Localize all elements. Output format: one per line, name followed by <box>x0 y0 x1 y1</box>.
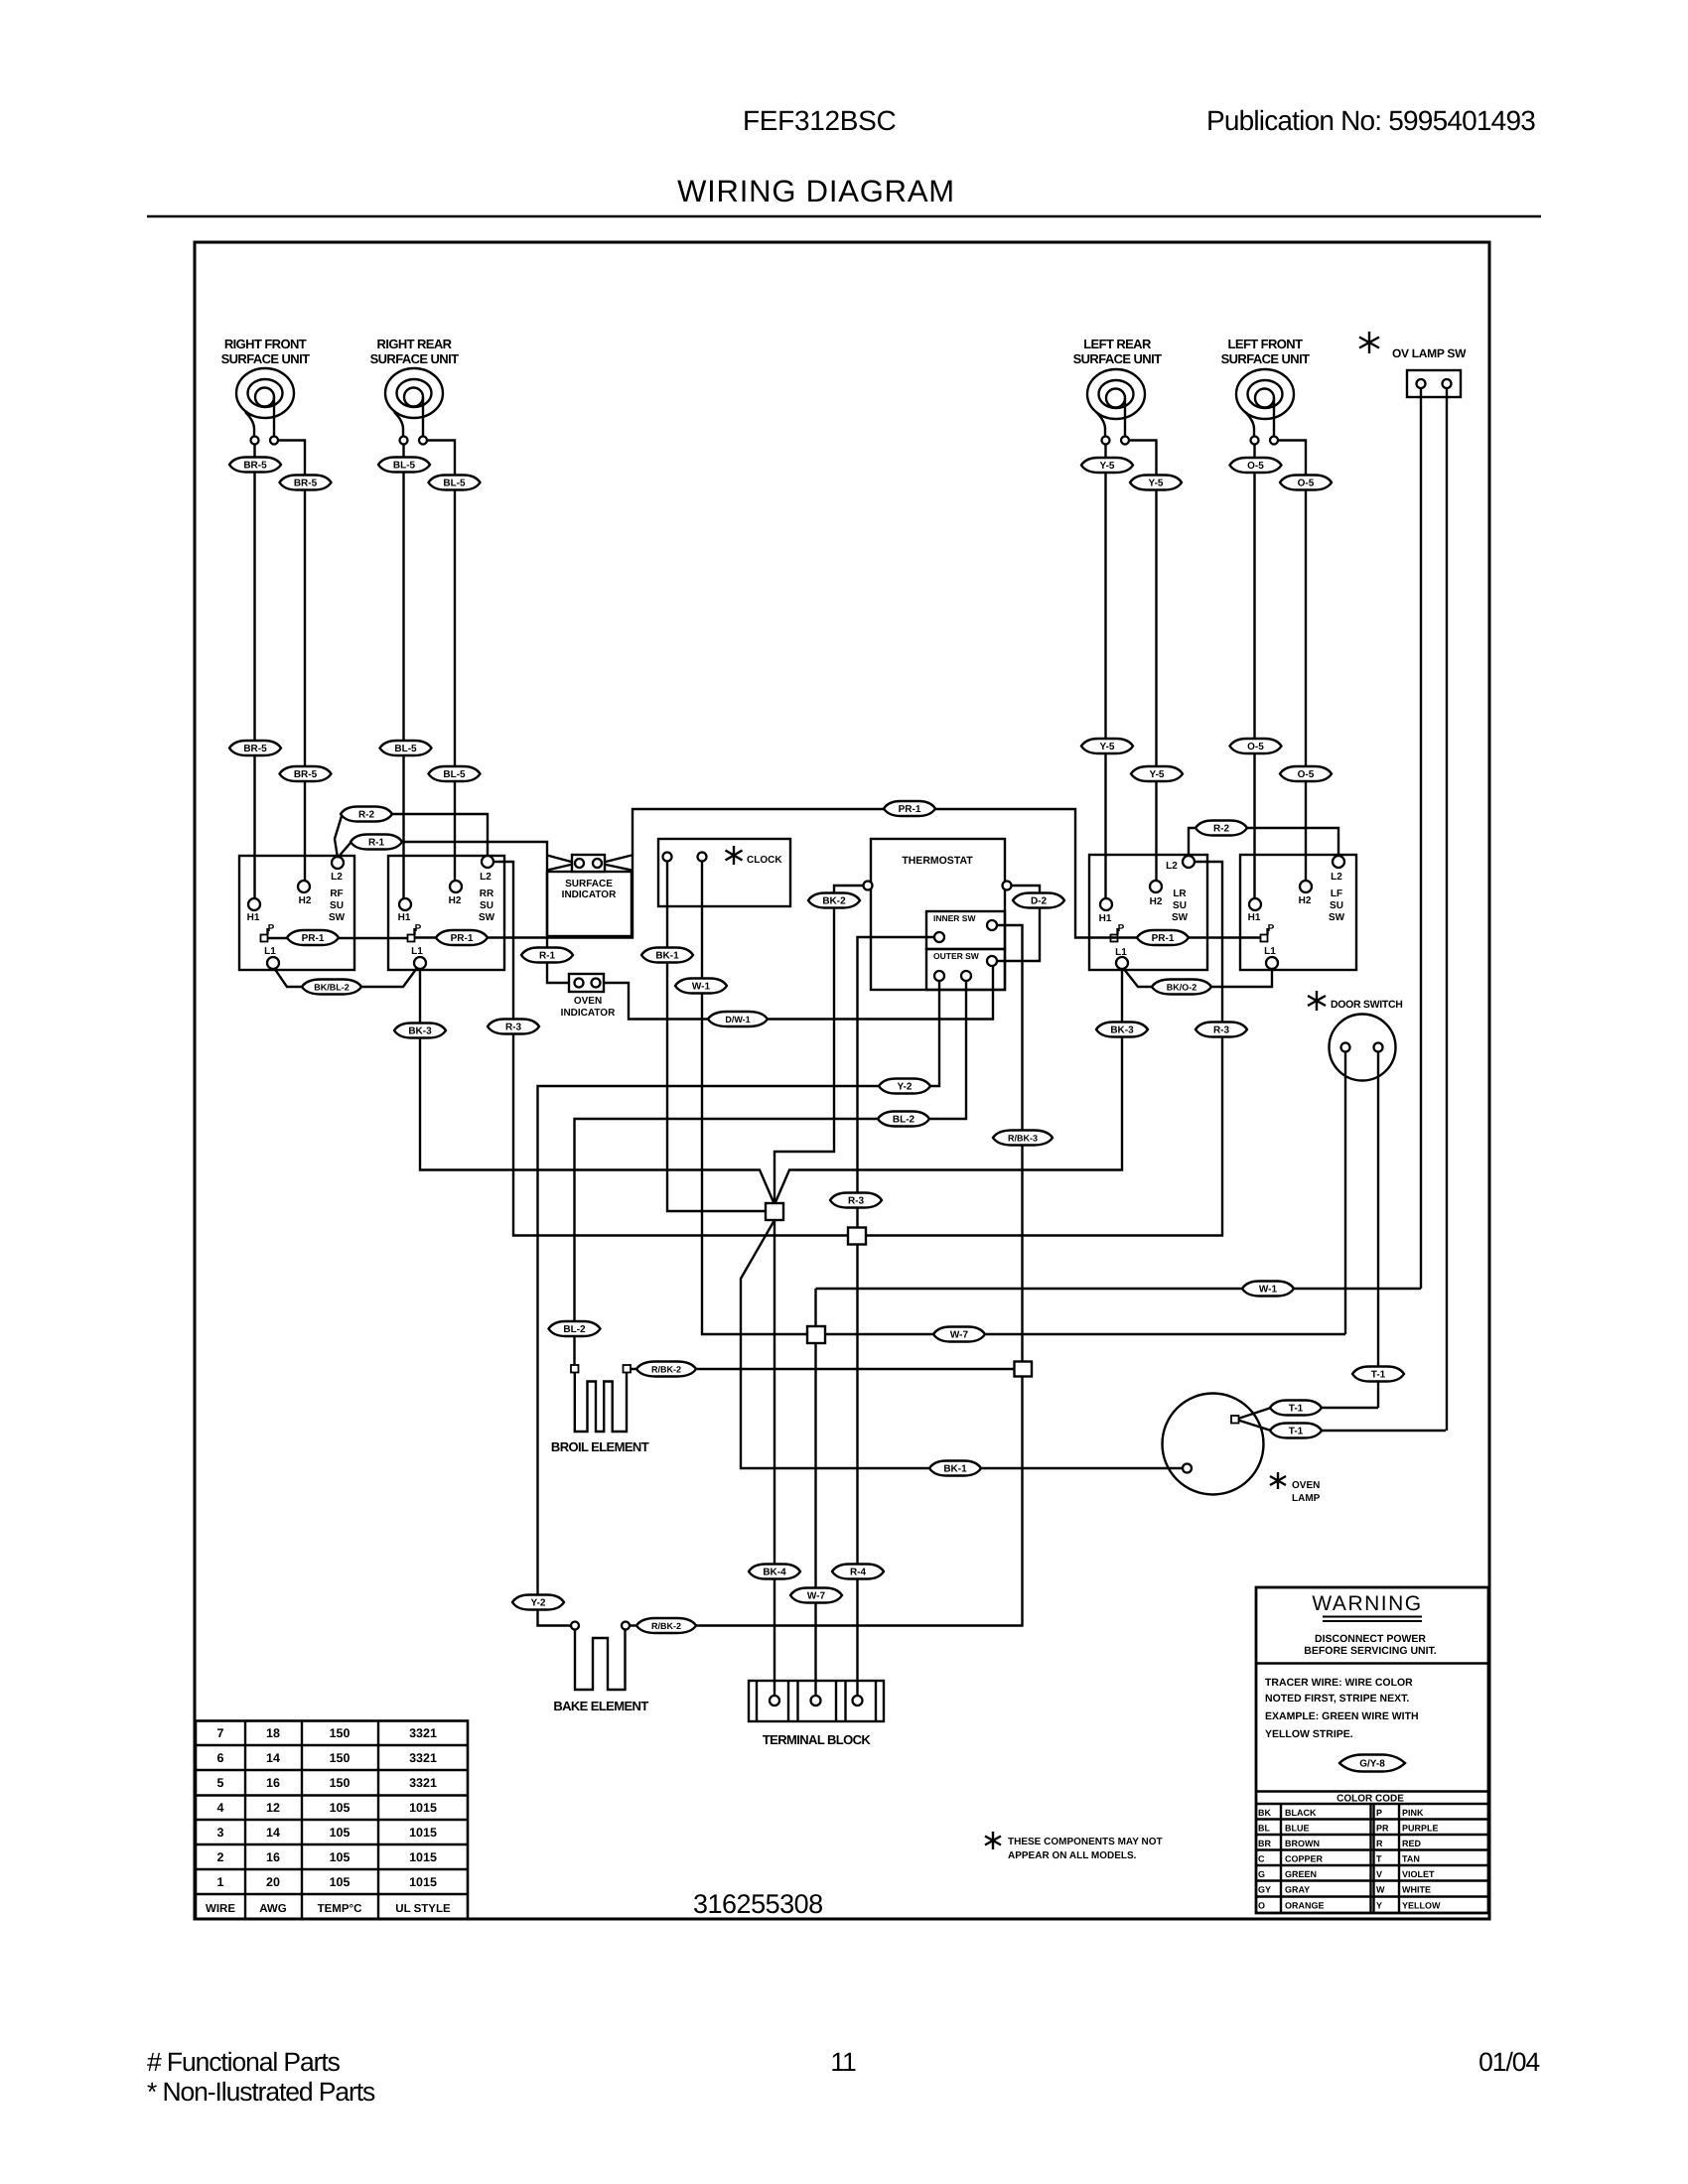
wire PR-1 run RF-RR <box>268 937 408 939</box>
right front surface unit coil <box>221 337 311 445</box>
svg-text:OV LAMP SW: OV LAMP SW <box>1392 346 1467 360</box>
junction square 3 <box>807 1326 825 1343</box>
svg-text:BK/O-2: BK/O-2 <box>1167 983 1197 993</box>
svg-text:BR-5: BR-5 <box>294 478 318 489</box>
svg-text:R-4: R-4 <box>850 1568 867 1578</box>
svg-text:O-5: O-5 <box>1247 742 1264 752</box>
svg-text:O-5: O-5 <box>1298 769 1315 780</box>
svg-text:BL-2: BL-2 <box>893 1115 915 1126</box>
svg-text:W-7: W-7 <box>950 1330 969 1341</box>
svg-text:BR-5: BR-5 <box>294 769 318 780</box>
wire BK-1 clock to junction <box>667 862 765 1212</box>
svg-text:SU: SU <box>1173 900 1187 911</box>
wire W-1 clock drop and W-7 run <box>702 862 1345 1335</box>
svg-text:YELLOW: YELLOW <box>1402 1901 1441 1911</box>
wire label oval BR-5 <box>280 766 332 781</box>
wire label oval PR-1 <box>287 930 339 945</box>
wire D-2 thermostat right to outer sw <box>997 886 1040 961</box>
svg-text:R/BK-2: R/BK-2 <box>651 1365 681 1375</box>
wire label oval BK-3 <box>1096 1023 1148 1037</box>
svg-text:105: 105 <box>330 1826 351 1840</box>
wire BK/O-2 link L1 LR to L1 LF <box>1123 968 1272 987</box>
svg-text:R-2: R-2 <box>1213 824 1230 835</box>
svg-text:BK-4: BK-4 <box>763 1568 786 1578</box>
svg-text:H1: H1 <box>398 912 411 923</box>
wire label oval D-2 <box>1013 893 1064 908</box>
svg-text:BK-3: BK-3 <box>1110 1025 1134 1036</box>
svg-text:H1: H1 <box>1099 913 1112 924</box>
wire BK-1 junction to oven lamp <box>741 1220 1183 1468</box>
svg-text:TEMP°C: TEMP°C <box>318 1903 362 1915</box>
svg-text:# Functional Parts: # Functional Parts <box>147 2047 341 2077</box>
svg-text:SURFACE UNIT: SURFACE UNIT <box>1221 351 1311 366</box>
wire label oval R-2 <box>341 807 392 822</box>
svg-text:H2: H2 <box>1299 895 1312 906</box>
svg-text:W-7: W-7 <box>807 1591 826 1602</box>
wire label oval O-5 <box>1280 766 1332 781</box>
svg-text:SURFACE UNIT: SURFACE UNIT <box>370 351 460 366</box>
wire label oval BR-5 <box>229 458 281 473</box>
svg-text:BROIL ELEMENT: BROIL ELEMENT <box>551 1439 649 1454</box>
svg-text:LEFT FRONT: LEFT FRONT <box>1228 337 1304 351</box>
wire label oval T-1 <box>1270 1401 1322 1416</box>
svg-text:D-2: D-2 <box>1031 896 1048 907</box>
svg-text:150: 150 <box>330 1726 351 1740</box>
svg-text:SW: SW <box>1172 912 1189 923</box>
svg-text:SW: SW <box>1329 912 1345 923</box>
svg-text:Y-5: Y-5 <box>1099 742 1114 752</box>
wire label oval BL-5 <box>429 476 481 490</box>
svg-text:Y-2: Y-2 <box>530 1598 545 1609</box>
wire label oval BR-5 <box>280 476 332 490</box>
wire R-3 run L2 RR to L2 LR <box>493 862 1222 1236</box>
svg-text:105: 105 <box>330 1850 351 1864</box>
wire label oval R-4 <box>832 1565 884 1579</box>
svg-text:RIGHT REAR: RIGHT REAR <box>377 337 453 351</box>
svg-text:L1: L1 <box>411 946 423 957</box>
svg-text:BLACK: BLACK <box>1285 1808 1317 1818</box>
svg-text:BR-5: BR-5 <box>243 744 267 754</box>
wire label oval BK-2 <box>808 893 860 908</box>
clock <box>658 839 790 906</box>
wire label oval R-1 <box>351 835 402 850</box>
wire label oval PR-1 <box>1137 930 1189 945</box>
svg-text:DOOR SWITCH: DOOR SWITCH <box>1331 999 1403 1011</box>
svg-text:PR-1: PR-1 <box>302 933 325 944</box>
svg-text:RED: RED <box>1402 1839 1422 1848</box>
thermostat <box>864 839 1012 990</box>
svg-text:TRACER WIRE: WIRE COLOR: TRACER WIRE: WIRE COLOR <box>1265 1677 1413 1689</box>
svg-text:BL-5: BL-5 <box>393 461 416 472</box>
svg-text:C: C <box>1258 1854 1265 1864</box>
junction square 4 <box>1015 1362 1033 1377</box>
wire RR H1 drop <box>402 445 404 899</box>
wire label oval BL-2 <box>878 1112 929 1127</box>
wire Y-2 outer sw to bake element <box>538 981 940 1626</box>
svg-text:O: O <box>1258 1901 1265 1911</box>
svg-text:PR-1: PR-1 <box>451 933 474 944</box>
wire R-2 run to RR L2 <box>392 814 488 856</box>
svg-text:3321: 3321 <box>409 1751 437 1765</box>
wire label oval O-5 <box>1230 739 1282 753</box>
svg-text:OUTER SW: OUTER SW <box>933 951 980 961</box>
svg-text:G: G <box>1258 1869 1265 1879</box>
svg-text:ORANGE: ORANGE <box>1285 1901 1325 1911</box>
svg-text:Publication No: 5995401493: Publication No: 5995401493 <box>1206 105 1535 136</box>
svg-text:R-3: R-3 <box>1213 1025 1230 1036</box>
svg-text:LR: LR <box>1173 888 1187 899</box>
svg-text:SURFACE UNIT: SURFACE UNIT <box>1073 351 1163 366</box>
wire label oval D/W-1 <box>708 1012 768 1026</box>
right rear surface unit coil <box>370 337 460 445</box>
wire label oval W-7 <box>933 1327 985 1342</box>
svg-text:L1: L1 <box>264 946 276 957</box>
LF surface unit switch box <box>1240 855 1356 970</box>
svg-text:YELLOW STRIPE.: YELLOW STRIPE. <box>1265 1728 1353 1740</box>
svg-text:T-1: T-1 <box>1289 1427 1304 1437</box>
svg-text:BL-5: BL-5 <box>443 478 466 489</box>
svg-text:14: 14 <box>266 1751 280 1765</box>
RF surface unit switch box <box>239 856 354 970</box>
svg-text:INDICATOR: INDICATOR <box>561 1008 616 1019</box>
svg-text:BL-2: BL-2 <box>563 1324 586 1335</box>
wire label oval R/BK-3 <box>993 1131 1053 1146</box>
wire BK-2 thermostat left to junction <box>774 886 864 1203</box>
svg-text:RR: RR <box>480 888 494 899</box>
svg-text:14: 14 <box>266 1826 280 1840</box>
wire label oval W-1 <box>675 979 727 994</box>
wire label oval Y-5 <box>1131 766 1183 781</box>
svg-text:H2: H2 <box>449 895 462 906</box>
svg-text:T: T <box>1376 1854 1382 1864</box>
svg-text:12: 12 <box>266 1801 280 1815</box>
svg-text:1: 1 <box>217 1875 224 1889</box>
svg-text:1015: 1015 <box>409 1826 437 1840</box>
svg-text:LEFT REAR: LEFT REAR <box>1083 337 1152 351</box>
wire LF H1 drop <box>1253 445 1255 899</box>
wire label oval R/BK-2 <box>636 1362 696 1377</box>
oven lamp switch OV LAMP SW <box>1359 332 1467 397</box>
svg-text:SW: SW <box>329 912 346 923</box>
svg-text:* Non-Ilustrated Parts: * Non-Ilustrated Parts <box>147 2077 375 2107</box>
wire LF H2 jog drop <box>1278 441 1306 882</box>
wire R-1 run to surface indicator <box>402 842 569 983</box>
svg-text:BL-5: BL-5 <box>394 744 417 754</box>
diagram outer border <box>195 242 1489 1919</box>
svg-text:LF: LF <box>1331 888 1342 899</box>
wire R/BK-2 broil to junction <box>630 1368 1014 1370</box>
wire label oval R-3 <box>830 1193 882 1208</box>
svg-text:Y: Y <box>1376 1901 1382 1911</box>
svg-text:L2: L2 <box>331 872 343 883</box>
svg-text:SURFACE UNIT: SURFACE UNIT <box>221 351 311 366</box>
svg-text:R: R <box>1376 1839 1383 1848</box>
junction square 2 <box>848 1228 866 1245</box>
wire label oval T-1 <box>1352 1367 1404 1382</box>
wire label oval O-5 <box>1280 476 1332 490</box>
wire gauge table <box>196 1721 468 1920</box>
svg-text:R/BK-3: R/BK-3 <box>1008 1134 1038 1144</box>
svg-text:WIRE: WIRE <box>206 1903 235 1915</box>
svg-text:Y-5: Y-5 <box>1099 461 1114 472</box>
svg-text:OVEN: OVEN <box>574 996 602 1007</box>
svg-text:3: 3 <box>217 1826 224 1840</box>
svg-text:R-3: R-3 <box>505 1023 522 1033</box>
svg-text:L2: L2 <box>1331 872 1342 883</box>
wire R-2 right run LR-LF <box>1189 828 1338 856</box>
wire label oval R-3 <box>488 1020 539 1034</box>
svg-text:PURPLE: PURPLE <box>1402 1824 1439 1834</box>
wire label oval Y-5 <box>1081 739 1133 753</box>
svg-text:DISCONNECT POWER: DISCONNECT POWER <box>1315 1633 1426 1645</box>
svg-text:316255308: 316255308 <box>693 1889 823 1919</box>
wire BK-4 junction to terminal block <box>774 1220 775 1696</box>
svg-text:1015: 1015 <box>409 1801 437 1815</box>
svg-text:EXAMPLE: GREEN WIRE WITH: EXAMPLE: GREEN WIRE WITH <box>1265 1710 1419 1722</box>
svg-text:GY: GY <box>1258 1885 1271 1895</box>
svg-text:PR-1: PR-1 <box>899 804 921 815</box>
svg-text:PR: PR <box>1376 1824 1389 1834</box>
svg-text:SU: SU <box>1330 900 1343 911</box>
svg-text:T-1: T-1 <box>1289 1404 1304 1415</box>
svg-text:16: 16 <box>266 1776 280 1790</box>
wire label oval Y-5 <box>1081 458 1133 473</box>
svg-text:RF: RF <box>330 888 343 899</box>
svg-text:18: 18 <box>266 1726 280 1740</box>
svg-text:RIGHT FRONT: RIGHT FRONT <box>224 337 307 351</box>
svg-text:APPEAR ON ALL MODELS.: APPEAR ON ALL MODELS. <box>1008 1850 1137 1861</box>
broil element <box>551 1365 649 1454</box>
svg-text:PR-1: PR-1 <box>1152 933 1175 944</box>
svg-text:BROWN: BROWN <box>1285 1839 1320 1848</box>
svg-text:D/W-1: D/W-1 <box>725 1015 750 1024</box>
wire BK-3 left drop and run <box>420 969 1122 1202</box>
svg-text:O-5: O-5 <box>1298 478 1315 489</box>
bake element <box>553 1622 648 1714</box>
tracer wire example oval G/Y-8 <box>1339 1755 1405 1772</box>
svg-text:BK-2: BK-2 <box>822 896 846 907</box>
wire label oval BK/BL-2 <box>302 980 361 995</box>
svg-text:R-2: R-2 <box>358 810 375 821</box>
svg-text:P: P <box>268 923 275 934</box>
svg-text:3321: 3321 <box>409 1726 437 1740</box>
wire D/W-1 oven indicator to outer sw <box>604 966 993 1020</box>
wire BL-2 outer sw to broil element <box>575 981 967 1365</box>
svg-text:Y-5: Y-5 <box>1148 478 1163 489</box>
wire W-7 drop to terminal block <box>814 1289 816 1696</box>
wire label oval PR-1 <box>884 801 935 816</box>
wire label oval R-2 <box>1196 821 1247 836</box>
svg-text:H2: H2 <box>1150 896 1163 907</box>
wire T-1 oven lamp to ov lamp sw <box>1238 1421 1446 1432</box>
svg-text:3321: 3321 <box>409 1776 437 1790</box>
svg-text:H1: H1 <box>1248 912 1261 923</box>
svg-text:UL STYLE: UL STYLE <box>395 1903 451 1915</box>
wire door switch right drop <box>1377 1052 1379 1409</box>
svg-text:105: 105 <box>330 1801 351 1815</box>
svg-text:R-3: R-3 <box>848 1196 865 1207</box>
wire label oval R-1 <box>521 948 573 963</box>
thermostat outer switch <box>926 949 1005 990</box>
thermostat inner switch <box>926 911 1005 949</box>
svg-text:SW: SW <box>479 912 495 923</box>
wire outer sw left to terminal block <box>858 937 935 1696</box>
svg-text:SU: SU <box>480 900 493 911</box>
junction square 1 <box>766 1203 783 1220</box>
wire label oval T-1 <box>1270 1424 1322 1438</box>
wire W-1 cross run to ov lamp sw <box>816 1288 1422 1290</box>
svg-text:GREEN: GREEN <box>1285 1869 1317 1879</box>
svg-text:5: 5 <box>217 1776 224 1790</box>
svg-text:2: 2 <box>217 1850 224 1864</box>
svg-text:THESE COMPONENTS MAY NOT: THESE COMPONENTS MAY NOT <box>1008 1837 1163 1847</box>
svg-text:R-1: R-1 <box>368 838 385 849</box>
svg-text:V: V <box>1376 1869 1382 1879</box>
left rear surface unit coil <box>1073 337 1163 445</box>
svg-text:TAN: TAN <box>1402 1854 1420 1864</box>
wire R-1 left link <box>338 843 351 858</box>
svg-text:R-1: R-1 <box>539 951 556 962</box>
svg-text:AWG: AWG <box>259 1903 287 1915</box>
wire R/BK-3 inner sw to broil junction <box>630 925 1023 1626</box>
wire label oval W-7 <box>790 1588 842 1603</box>
wire label oval Y-5 <box>1130 476 1182 490</box>
svg-text:BLUE: BLUE <box>1285 1824 1310 1834</box>
svg-text:105: 105 <box>330 1875 351 1889</box>
svg-text:L2: L2 <box>480 872 492 883</box>
svg-text:Y-2: Y-2 <box>897 1082 912 1093</box>
svg-text:BK/BL-2: BK/BL-2 <box>314 983 350 993</box>
svg-text:20: 20 <box>266 1875 280 1889</box>
door switch <box>1308 991 1403 1081</box>
wire label oval BK-4 <box>749 1565 800 1579</box>
note: these components may not appear <box>985 1832 1163 1861</box>
svg-text:4: 4 <box>217 1801 224 1815</box>
svg-text:H1: H1 <box>247 912 260 923</box>
wire label oval BK-3 <box>394 1024 446 1038</box>
wire label oval BR-5 <box>229 741 281 755</box>
svg-text:P: P <box>1118 923 1125 934</box>
oven indicator <box>561 974 616 1019</box>
svg-text:FEF312BSC: FEF312BSC <box>743 105 897 136</box>
wire label oval BL-5 <box>378 458 430 473</box>
svg-text:16: 16 <box>266 1850 280 1864</box>
svg-text:BK-3: BK-3 <box>408 1026 432 1037</box>
wire RR H2 jog drop <box>427 441 455 882</box>
svg-text:BAKE ELEMENT: BAKE ELEMENT <box>553 1699 648 1713</box>
svg-text:6: 6 <box>217 1751 224 1765</box>
wire label oval BK-1 <box>641 948 693 963</box>
left front surface unit coil <box>1221 337 1311 445</box>
svg-text:P: P <box>1376 1808 1382 1818</box>
wire label oval O-5 <box>1230 458 1282 473</box>
wire BK/BL-2 link L1 RF to L1 RR <box>274 968 417 987</box>
svg-text:T-1: T-1 <box>1371 1370 1386 1381</box>
svg-text:W: W <box>1376 1885 1385 1895</box>
svg-text:TERMINAL BLOCK: TERMINAL BLOCK <box>763 1732 872 1747</box>
wire LR H1 drop <box>1104 445 1106 899</box>
RR surface unit switch box <box>388 856 504 970</box>
wire door switch left drop <box>1344 1052 1346 1335</box>
svg-text:BK-1: BK-1 <box>655 951 679 962</box>
svg-text:OVEN: OVEN <box>1292 1480 1320 1491</box>
svg-text:BK-1: BK-1 <box>943 1464 967 1475</box>
svg-text:WHITE: WHITE <box>1402 1885 1431 1895</box>
svg-text:SU: SU <box>330 900 344 911</box>
svg-text:BK: BK <box>1258 1808 1271 1818</box>
wire T-1 oven lamp to door switch <box>1238 1408 1378 1419</box>
wire LR H2 jog drop <box>1129 441 1157 882</box>
svg-text:W-1: W-1 <box>1259 1285 1278 1296</box>
svg-text:WARNING: WARNING <box>1312 1592 1422 1615</box>
wire label oval BL-5 <box>380 741 432 755</box>
svg-text:INDICATOR: INDICATOR <box>562 889 617 900</box>
svg-text:1015: 1015 <box>409 1850 437 1864</box>
surface indicator <box>547 855 632 936</box>
svg-text:COPPER: COPPER <box>1285 1854 1324 1864</box>
wire label oval BL-5 <box>429 766 481 781</box>
wire label oval R-3 <box>1196 1023 1247 1037</box>
oven lamp <box>1163 1394 1321 1505</box>
wire label oval PR-1 <box>436 930 488 945</box>
svg-text:W-1: W-1 <box>692 982 711 993</box>
svg-text:BR: BR <box>1258 1839 1271 1848</box>
svg-text:VIOLET: VIOLET <box>1402 1869 1435 1879</box>
svg-text:G/Y-8: G/Y-8 <box>1359 1759 1385 1770</box>
svg-text:L2: L2 <box>1166 861 1178 872</box>
svg-text:L1: L1 <box>1264 946 1276 957</box>
svg-text:P: P <box>1268 923 1275 934</box>
wire label oval W-1 <box>1242 1282 1294 1297</box>
wire label oval BK-1 <box>929 1461 981 1476</box>
svg-text:LAMP: LAMP <box>1292 1493 1321 1504</box>
svg-text:INNER SW: INNER SW <box>933 913 976 923</box>
svg-text:150: 150 <box>330 1751 351 1765</box>
wire RF H1 drop <box>253 445 255 899</box>
svg-text:Y-5: Y-5 <box>1149 769 1164 780</box>
svg-text:BL: BL <box>1258 1824 1270 1834</box>
svg-text:BL-5: BL-5 <box>443 769 466 780</box>
svg-text:11: 11 <box>830 2047 856 2077</box>
wire label oval Y-2 <box>512 1595 564 1610</box>
svg-text:WIRING DIAGRAM: WIRING DIAGRAM <box>677 174 955 208</box>
wire label oval BK/O-2 <box>1152 980 1211 995</box>
wire RF H2 jog drop <box>278 441 305 882</box>
wire label oval BL-2 <box>549 1321 601 1336</box>
svg-text:GRAY: GRAY <box>1285 1885 1310 1895</box>
wire OV LAMP SW right drop <box>1446 388 1448 1431</box>
svg-text:SURFACE: SURFACE <box>565 879 613 889</box>
title rule <box>147 215 1541 218</box>
svg-text:BEFORE SERVICING UNIT.: BEFORE SERVICING UNIT. <box>1304 1645 1436 1657</box>
svg-text:O-5: O-5 <box>1247 461 1264 472</box>
wire label oval Y-2 <box>879 1079 930 1094</box>
svg-text:BR-5: BR-5 <box>243 461 267 472</box>
wire R-2 left link <box>335 816 342 858</box>
svg-text:150: 150 <box>330 1776 351 1790</box>
LR surface unit switch box <box>1089 855 1207 970</box>
wire label oval R/BK-2 <box>636 1618 696 1633</box>
wire OV LAMP SW left drop <box>1420 388 1422 1289</box>
svg-text:H2: H2 <box>299 895 312 906</box>
wire PR-1 run RR to riser and across top <box>415 809 1261 938</box>
terminal block <box>749 1681 884 1747</box>
svg-text:CLOCK: CLOCK <box>747 855 782 866</box>
svg-text:THERMOSTAT: THERMOSTAT <box>902 855 973 867</box>
svg-text:NOTED FIRST, STRIPE NEXT.: NOTED FIRST, STRIPE NEXT. <box>1265 1693 1409 1705</box>
svg-text:R/BK-2: R/BK-2 <box>651 1621 681 1631</box>
svg-text:1015: 1015 <box>409 1875 437 1889</box>
